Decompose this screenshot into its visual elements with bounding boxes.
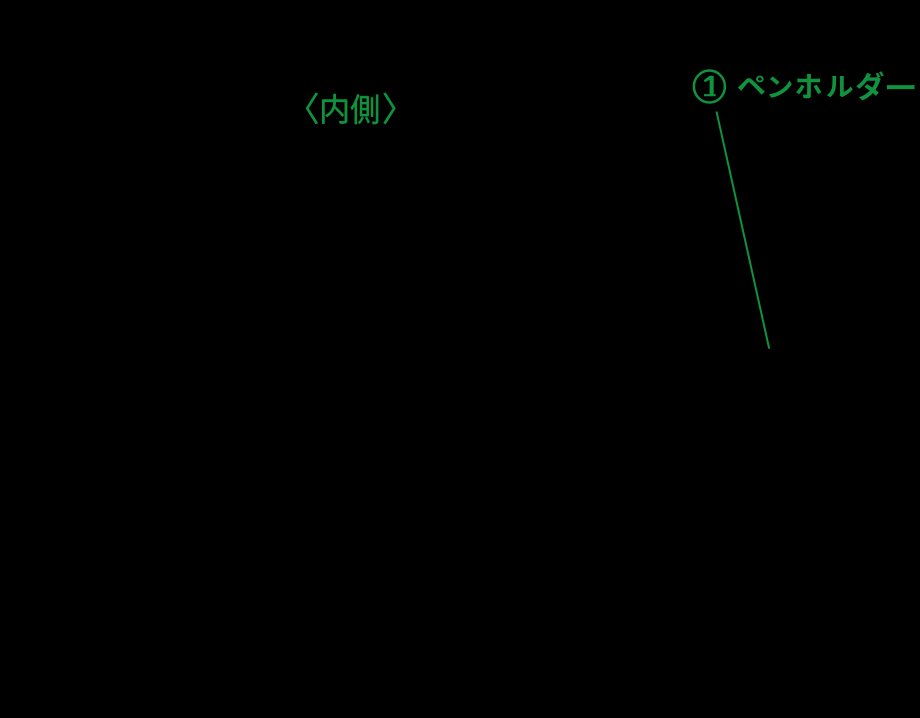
label text ン (katakana n) [769,77,792,98]
label text ホ (katakana ho) [796,74,821,98]
label text 側 (kanji 'side') [351,94,378,124]
label text 〈 (opening angle bracket) [306,93,318,124]
label text ル (katakana ru) [827,76,853,97]
label text ー (katakana long vowel bar) [887,85,915,89]
label text 〉 (closing angle bracket) [384,93,396,124]
label text ペンホルダー ("pen holder") [738,71,915,100]
leader line from ① down to pen holder location [717,112,770,349]
label text 内 (kanji 'inner') [322,94,347,124]
title 〈内側〉 ("inside") green label [306,93,396,124]
digit 1 inside circle (serif style) [704,76,716,97]
label text ダ (katakana da) [856,71,884,100]
label text ペ (katakana pe) [738,76,765,95]
callout ① circled number one [694,71,725,103]
